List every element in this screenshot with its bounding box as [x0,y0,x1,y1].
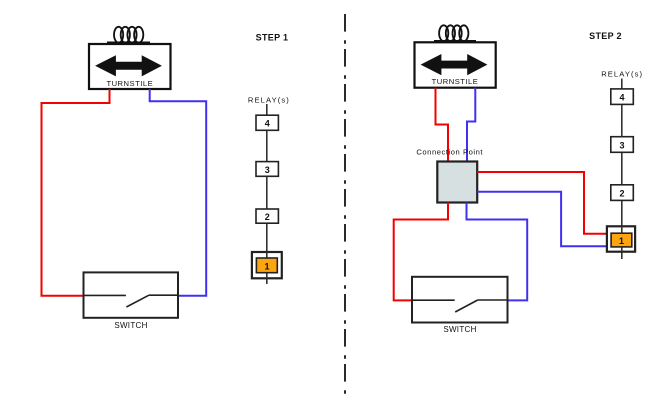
label STEP 1 [256,33,289,43]
wire blue: connection point bottom to switch S2 right [467,203,528,301]
label RELAY(s) (step 2) [601,70,643,79]
wire red: connection point bottom to switch S2 left [394,203,448,301]
label RELAY(s) (step 1) [248,96,290,105]
svg-text:3: 3 [619,140,624,150]
turnstile T1 box (step 1) [89,44,171,89]
svg-text:Connection Point: Connection Point [416,147,483,156]
svg-text:STEP 1: STEP 1 [256,33,289,43]
svg-text:RELAY(s): RELAY(s) [601,70,643,79]
double-headed arrow icon inside turnstile T2 [421,54,488,75]
svg-text:TURNSTILE: TURNSTILE [106,79,153,88]
svg-text:2: 2 [265,212,270,222]
relay K3 (step 2) [611,137,634,153]
relay K3 (step 1) [256,162,278,177]
svg-text:1: 1 [264,261,269,271]
double-headed arrow icon inside turnstile T1 [95,55,162,76]
svg-text:SWITCH: SWITCH [443,325,476,334]
label STEP 2 [589,31,622,41]
inductor L2 coil on turnstile (step 2) [434,25,476,41]
switch S2 box (step 2) [412,277,508,323]
inductor L1 coil on turnstile (step 1) [107,27,150,43]
switch S1 box (step 1) [84,272,179,317]
svg-text:1: 1 [619,236,624,246]
label TURNSTILE (step 2) [432,77,479,86]
relay K2 (step 1) [256,209,278,223]
wire blue: turnstile T2 right terminal down to connection point top [467,88,475,162]
svg-text:TURNSTILE: TURNSTILE [432,77,479,86]
turnstile T2 box (step 2) [415,42,496,87]
svg-text:2: 2 [619,189,624,199]
relay K4 (step 2) [611,89,634,105]
svg-text:3: 3 [265,165,270,175]
svg-text:4: 4 [619,93,624,103]
relay K1 active highlighted (step 1) [252,252,282,278]
wire blue: turnstile T1 right terminal to switch S1 right [150,89,207,296]
relay K4 (step 1) [256,115,278,130]
wire red: connection point right side to relay K1 (step 2) [477,172,607,234]
svg-text:RELAY(s): RELAY(s) [248,96,290,105]
svg-text:4: 4 [265,119,270,129]
wire relay chain vertical (step 2) [621,79,623,260]
label Connection Point [416,147,483,156]
connection point CP1 box [437,162,477,203]
wire blue: connection point right side to relay K1 (step 2) [477,192,607,246]
wire relay chain vertical (step 1) [266,104,268,284]
divider dash-dot line between STEP 1 and STEP 2 [344,14,346,394]
svg-text:STEP 2: STEP 2 [589,31,622,41]
wire red: turnstile T1 left terminal to switch S1 left [42,89,110,296]
label TURNSTILE (step 1) [106,79,153,88]
svg-text:SWITCH: SWITCH [114,321,147,330]
label SWITCH (step 1) [114,321,147,330]
wire red: turnstile T2 left terminal down to connection point top [436,88,449,162]
relay K2 (step 2) [611,185,634,201]
relay K1 active highlighted (step 2) [607,226,635,251]
label SWITCH (step 2) [443,325,476,334]
